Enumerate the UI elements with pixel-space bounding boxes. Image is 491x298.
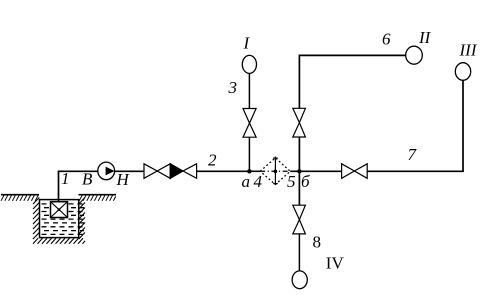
pipe 7 <box>367 170 464 172</box>
riser to III <box>462 80 464 172</box>
ground hatch left band <box>1 195 38 201</box>
pump H <box>98 162 115 180</box>
svg-text:III: III <box>459 40 478 59</box>
pit bottom hatch band <box>33 238 85 244</box>
ground surface left <box>1 194 39 196</box>
water tank rectangle <box>40 200 79 238</box>
node a junction dot <box>247 169 251 173</box>
foot valve box (strainer) <box>51 202 68 218</box>
valve on up branch <box>293 108 306 137</box>
svg-text:6: 6 <box>382 29 391 48</box>
flow meter center dot <box>274 170 278 174</box>
circle IV <box>292 271 307 289</box>
flow meter axis dash-dot <box>260 170 290 172</box>
valve on line 7 <box>342 164 368 179</box>
circle III <box>455 63 470 81</box>
gate valve (open bowtie) <box>144 164 170 179</box>
pipe pump to valve <box>115 170 144 172</box>
node b junction dot <box>297 169 301 173</box>
pit left wall hatch <box>33 198 39 240</box>
svg-text:4: 4 <box>254 172 263 191</box>
suction riser pipe <box>58 171 60 201</box>
pit right wall hatch <box>79 198 85 240</box>
check valve (half filled bowtie) <box>170 164 196 179</box>
pipe 8 to IV <box>298 234 300 271</box>
flow meter (dotted diamond) <box>260 158 290 185</box>
svg-text:1: 1 <box>61 169 70 188</box>
pipe to node b <box>290 170 341 172</box>
svg-text:8: 8 <box>313 233 322 252</box>
svg-text:б: б <box>301 172 310 191</box>
main pipe to pump <box>58 170 98 172</box>
branch down from b <box>298 171 300 205</box>
svg-text:IV: IV <box>326 254 345 273</box>
valve 8 (vertical bowtie) <box>293 205 306 234</box>
svg-text:2: 2 <box>208 151 217 170</box>
svg-text:Н: Н <box>116 170 131 189</box>
flow meter vertical stem with ticks <box>273 157 278 185</box>
svg-text:II: II <box>418 28 432 47</box>
svg-text:5: 5 <box>287 172 296 191</box>
circle I <box>242 55 256 73</box>
branch 3 lower pipe <box>248 137 250 171</box>
svg-text:3: 3 <box>228 78 238 97</box>
ground surface right <box>79 194 117 196</box>
branch 3 upper pipe <box>248 73 250 108</box>
branch up from b lower pipe <box>298 137 300 171</box>
svg-text:В: В <box>82 170 93 189</box>
pipe 2 <box>197 170 260 172</box>
up branch pipe + line 6 horizontal <box>299 55 405 108</box>
svg-text:а: а <box>242 172 251 191</box>
valve 3 (vertical bowtie) <box>243 109 256 138</box>
ground hatch right band <box>79 195 116 201</box>
water dashes <box>42 204 85 235</box>
circle II <box>406 46 423 64</box>
